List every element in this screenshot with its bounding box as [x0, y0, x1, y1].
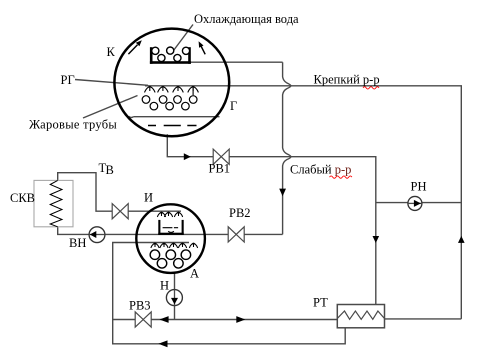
svg-text:Охлаждающая вода: Охлаждающая вода — [194, 12, 299, 26]
svg-text:И: И — [144, 191, 153, 205]
svg-text:СКВ: СКВ — [10, 191, 35, 205]
svg-text:РВ2: РВ2 — [229, 206, 251, 220]
svg-text:РВ1: РВ1 — [209, 162, 231, 176]
svg-text:Крепкий р-р: Крепкий р-р — [314, 73, 380, 87]
svg-text:РГ: РГ — [61, 73, 75, 87]
svg-text:В: В — [106, 163, 114, 177]
svg-text:ВН: ВН — [69, 236, 86, 250]
svg-text:Г: Г — [230, 99, 237, 113]
svg-text:Слабый р-р: Слабый р-р — [290, 163, 351, 177]
svg-text:А: А — [190, 267, 199, 281]
svg-text:РВ3: РВ3 — [129, 299, 151, 313]
svg-text:РТ: РТ — [313, 296, 328, 310]
svg-text:РН: РН — [411, 180, 427, 194]
svg-text:Жаровые трубы: Жаровые трубы — [29, 118, 117, 132]
svg-text:К: К — [107, 45, 116, 59]
svg-text:Н: Н — [160, 279, 169, 293]
